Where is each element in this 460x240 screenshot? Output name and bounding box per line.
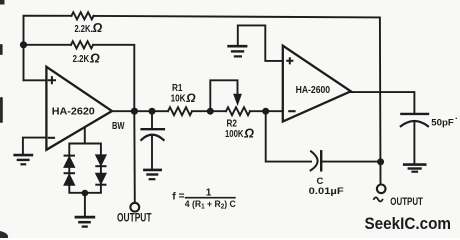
svg-text:Ω: Ω (89, 51, 100, 65)
svg-text:Ω: Ω (92, 21, 103, 35)
svg-text:=: = (179, 191, 185, 202)
svg-text:4 (R1 + R2) C: 4 (R1 + R2) C (185, 199, 236, 211)
svg-text:2.2K: 2.2K (73, 53, 90, 65)
svg-text:2.2K.: 2.2K. (75, 23, 93, 35)
svg-text:HA-2600: HA-2600 (296, 85, 331, 96)
svg-text:0.01µF: 0.01µF (309, 186, 344, 197)
svg-text:·: · (455, 114, 458, 124)
svg-text:OUTPUT: OUTPUT (390, 196, 423, 208)
svg-text:SeekIC.com: SeekIC.com (365, 215, 452, 233)
svg-text:Ω: Ω (243, 127, 254, 141)
svg-text:HA-2620: HA-2620 (52, 106, 95, 118)
svg-text:10K: 10K (171, 93, 187, 104)
svg-text:100K: 100K (225, 129, 244, 140)
svg-text:f: f (172, 190, 176, 202)
svg-text:BW: BW (112, 120, 125, 132)
svg-text:50pF: 50pF (431, 118, 454, 129)
svg-text:R2: R2 (227, 118, 238, 129)
svg-text:Ω: Ω (185, 91, 196, 105)
svg-text:OUTPUT: OUTPUT (117, 211, 152, 225)
